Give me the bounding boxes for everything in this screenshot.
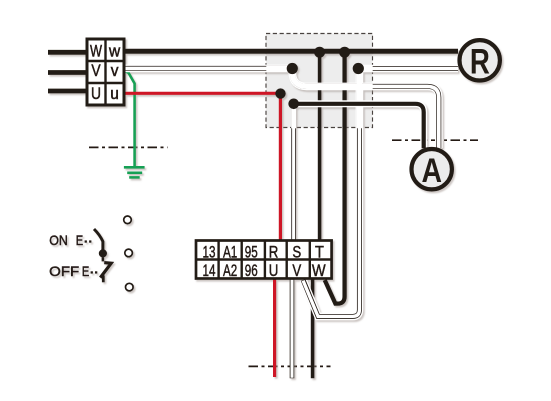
svg-text:V: V <box>292 263 301 280</box>
svg-text:E: E <box>82 263 89 279</box>
svg-text:W: W <box>312 262 326 280</box>
svg-text:A: A <box>421 152 442 190</box>
svg-text:R: R <box>470 41 490 81</box>
wire: white from pilot lamp R to junction <box>358 65 458 73</box>
wire overlay: uncased white inside junction box (pilot lamp return) <box>356 66 373 71</box>
svg-text:S: S <box>292 244 301 261</box>
svg-text:v: v <box>111 63 119 80</box>
wire: white V phase from input block through junction box to ammeter <box>124 68 439 148</box>
wire: red U below contactor block to motor <box>273 277 276 377</box>
svg-text:u: u <box>110 86 119 103</box>
ground symbol <box>124 167 145 177</box>
wire overlay: uncased white inside junction box (S drop) <box>291 104 296 129</box>
wire: black from junction to ammeter A <box>294 104 424 148</box>
svg-text:V: V <box>91 62 101 80</box>
ground wire (green) <box>125 71 135 166</box>
OFF break contact (zigzag) <box>100 257 111 282</box>
wire: black W phase bus from input block to pilot lamp R <box>124 49 458 54</box>
wire overlay: uncased white inside junction box (detour drop) <box>357 66 362 128</box>
junction box (dashed enclosure) <box>266 34 373 128</box>
terminal circle 2 <box>125 249 133 257</box>
svg-text:w: w <box>108 43 121 60</box>
svg-text:96: 96 <box>245 261 258 279</box>
terminal circle 1 <box>124 216 132 224</box>
svg-text:A2: A2 <box>223 261 237 279</box>
node: ammeter branch junction <box>288 99 299 110</box>
svg-text:95: 95 <box>245 242 258 260</box>
terminal circle 3 <box>126 283 134 291</box>
svg-text:R: R <box>269 244 279 261</box>
pilot lamp R <box>460 40 500 81</box>
node: pilot lamp return junction <box>353 63 364 74</box>
wire overlay: uncased white inside junction box (V phase path) <box>266 68 372 86</box>
svg-text:13: 13 <box>203 242 216 260</box>
node: red U corner junction <box>275 88 285 98</box>
node: V phase junction <box>287 63 298 74</box>
svg-text:W: W <box>90 43 102 61</box>
supply stub wire W <box>48 50 88 55</box>
wire: white drop from ammeter junction to S terminal <box>291 104 296 246</box>
contactor terminal block 13/A1/95/RST <box>196 241 332 281</box>
input terminal block W/V/U <box>87 39 124 105</box>
supply stub wire U <box>48 89 88 94</box>
wire: white V below contactor block to motor <box>290 277 295 378</box>
svg-text:A1: A1 <box>223 242 237 260</box>
chassis dash-dot line left (near ground) <box>89 146 168 148</box>
chassis dash-dot line right (near ammeter) <box>392 139 478 141</box>
wire: black bypass from W bus down right side to W terminal (diagonal) <box>325 52 345 304</box>
node: W bus / T drop <box>314 47 325 58</box>
svg-text:E: E <box>76 232 83 248</box>
ammeter A <box>412 149 452 190</box>
switch common node <box>99 249 107 257</box>
ON push-button operator E with dashed link <box>76 232 92 248</box>
wire: red U phase from input block to junction box, turns down <box>124 93 280 246</box>
svg-text:OFF: OFF <box>49 263 79 279</box>
chassis dash-dot line bottom (to motor) <box>249 365 331 367</box>
wire: black drop from W bus to T terminal <box>318 52 322 246</box>
ON make contact arm <box>94 229 103 250</box>
OFF push-button operator E with dashed link <box>82 263 97 279</box>
svg-text:U: U <box>269 263 279 280</box>
wire: white return from pilot lamp down right side to V terminal (diagonal) <box>303 69 359 317</box>
wire: black W below contactor block to motor <box>311 277 315 378</box>
node: W bus / bypass drop <box>339 47 350 58</box>
svg-text:T: T <box>315 244 324 262</box>
svg-text:U: U <box>91 85 101 103</box>
svg-text:ON: ON <box>49 232 68 248</box>
supply stub wire V <box>48 70 88 75</box>
svg-text:14: 14 <box>203 261 216 279</box>
